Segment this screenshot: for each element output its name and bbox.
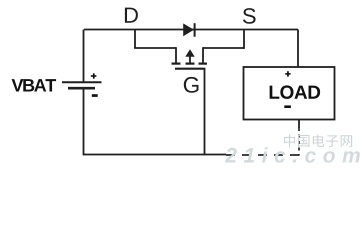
watermark line 2: 21ic.com italic bbox=[225, 147, 360, 162]
wire: left vertical from top rail down to battery + plate bbox=[83, 30, 85, 82]
transistor Q1 P-channel MOSFET bbox=[172, 47, 208, 68]
label VBAT bbox=[12, 79, 57, 91]
wire: drain drop from top rail at node D bbox=[134, 30, 136, 49]
Q1 gate bar bbox=[175, 68, 205, 70]
wire: left vertical from battery - plate down to bottom rail bbox=[83, 89, 85, 156]
Q1 channel dash drain side bbox=[172, 62, 181, 64]
LOAD box bbox=[244, 67, 335, 120]
label load + polarity bbox=[285, 71, 290, 76]
label G (gate node) bbox=[184, 77, 199, 93]
label D (drain node) bbox=[125, 8, 138, 23]
wire: source rise to top rail at node S bbox=[243, 30, 245, 49]
wire: drain lead horizontal bbox=[134, 47, 176, 49]
wire: top rail from battery node to load drop bbox=[84, 29, 298, 31]
label LOAD bbox=[270, 85, 321, 99]
battery - plate (short thick) bbox=[68, 87, 95, 90]
Q1 source contact vertical bbox=[202, 47, 204, 62]
Q1 drain contact vertical bbox=[175, 47, 177, 62]
wire: source lead horizontal bbox=[203, 47, 244, 49]
battery + plate (long) bbox=[62, 81, 102, 83]
wire: bottom rail continuation under watermark (broken dashes) bbox=[226, 154, 299, 156]
wire: gate wire down to bottom rail bbox=[204, 69, 206, 156]
Q1 channel dash source side bbox=[199, 62, 208, 64]
Q1 body arrow bbox=[185, 49, 194, 63]
Q1 channel dash body bbox=[186, 62, 195, 64]
label load - polarity bbox=[284, 105, 291, 108]
wire: LOAD bottom lead under watermark (dotted) bbox=[298, 128, 300, 156]
wire: LOAD bottom lead (solid stub) bbox=[298, 120, 300, 129]
label battery + polarity bbox=[91, 73, 97, 78]
label S (source node) bbox=[243, 8, 256, 24]
watermark line 1: 中国电子网 bbox=[284, 134, 352, 147]
battery VBAT symbol bbox=[62, 82, 102, 88]
diode D1 body diode on top rail bbox=[183, 23, 194, 37]
wire: bottom rail (solid part) bbox=[83, 154, 226, 156]
wire: top rail drop to LOAD box top bbox=[297, 30, 299, 68]
label battery - polarity bbox=[92, 94, 98, 97]
